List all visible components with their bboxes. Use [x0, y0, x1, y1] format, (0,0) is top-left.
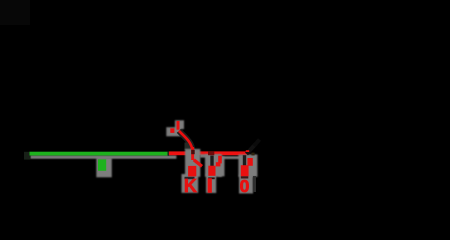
- wire: gray band under red line right section: [200, 154, 221, 157]
- arrow A3: red hook foot: [216, 162, 221, 166]
- faint corner patch: [0, 0, 30, 25]
- node O2: letter halo box: [206, 174, 216, 193]
- node O2: dark notch on line: [208, 151, 214, 155]
- wire: col2 gray lower-right extension: [218, 157, 225, 177]
- node: dark notch between green and red bond: [168, 152, 169, 156]
- gap shade col3: [241, 176, 249, 178]
- bond stub: dark core junction 2: [210, 156, 213, 168]
- arrow U1: red vertical through junction 1: [191, 147, 194, 160]
- svg-text:K: K: [184, 176, 197, 196]
- node P1: gray halo box above/below line at junction 1: [185, 149, 200, 177]
- node A: dark tip blob at left end of green bond: [24, 152, 31, 160]
- arrow A2: red diagonal from junction 1 toward lower right: [194, 160, 202, 167]
- label Cl gray halo box: [96, 158, 112, 178]
- arrow U1: gray halo box around red arrowhead: [175, 120, 184, 129]
- arrow U1: red square hook of arrowhead: [170, 128, 174, 133]
- atom O2: red block below junction 2: [208, 166, 215, 176]
- node P1: letter halo box: [182, 174, 199, 193]
- node O3: letter halo box: [239, 175, 253, 194]
- gap shade col1: [185, 177, 195, 179]
- label Cl green glyph block: [98, 159, 106, 171]
- fuzz patch left of landing: [185, 143, 191, 151]
- atom O1: red block below junction 1: [188, 166, 196, 177]
- node O2: gray halo box junction 2: [205, 155, 222, 177]
- arrow A3: red hook bar at junction 2: [218, 156, 222, 164]
- arrow U1: red vertical bar of arrowhead: [177, 121, 180, 130]
- atom O3: red block below junction 3: [241, 165, 249, 176]
- wire: gray antialias band under green bond: [30, 155, 176, 158]
- node P1: dark crossing blob: [191, 150, 195, 154]
- arrow U1: faint fuzz under curve: [179, 131, 193, 151]
- node: red dot bump at end of red line: [246, 150, 249, 152]
- bond stub faint extension: [254, 140, 260, 147]
- svg-text:I: I: [207, 176, 212, 196]
- node: faint olive dot at line end: [251, 153, 254, 156]
- arrow A4: red hook block at junction 3: [247, 158, 252, 166]
- arrow U1: red curved shaft: [179, 131, 193, 151]
- bond: green highlighted bond line: [30, 152, 168, 156]
- bond stub: dark core junction 3: [243, 155, 246, 168]
- gap shade col2: [208, 177, 215, 179]
- svg-text:0: 0: [240, 176, 250, 196]
- bond: red highlighted main chain line: [169, 151, 249, 155]
- bond: dark diagonal stub up-right at line end: [247, 144, 257, 155]
- node O3: gray halo box junction 3: [238, 155, 257, 177]
